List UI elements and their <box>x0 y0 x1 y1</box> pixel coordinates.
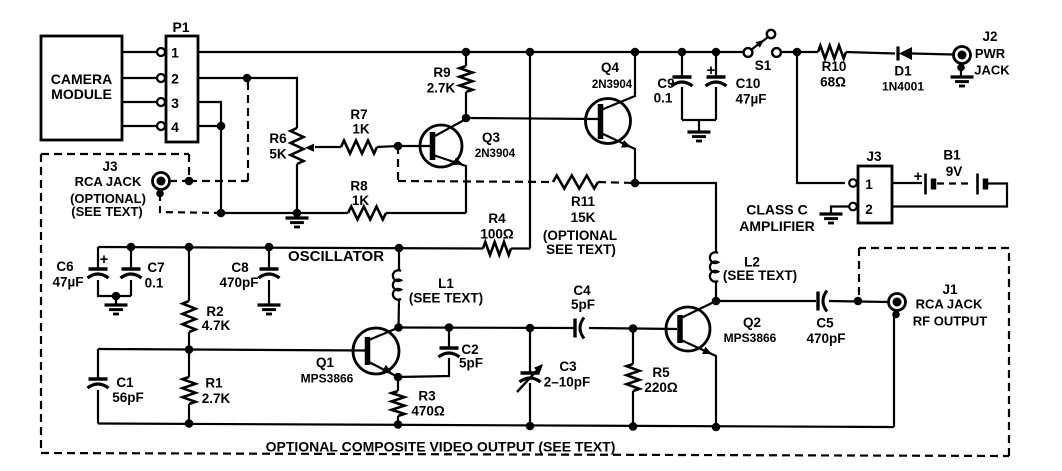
junction Q3 base node <box>394 142 403 151</box>
svg-text:RCA JACK: RCA JACK <box>916 297 983 312</box>
svg-text:JACK: JACK <box>974 63 1010 78</box>
junction Q3 collector / R9 <box>462 114 471 123</box>
svg-text:R5: R5 <box>652 365 670 380</box>
wire camera to P1 pin4 <box>122 125 157 127</box>
svg-text:C7: C7 <box>147 260 164 275</box>
junction C6-C7 ground node <box>112 292 121 301</box>
wire C6 top lead <box>97 247 99 269</box>
capacitor C6 <box>89 267 108 271</box>
wire Q4 emitter to L2 <box>635 183 716 253</box>
junction rail / C8 <box>265 243 274 252</box>
Q4 emitter arrow <box>621 140 631 148</box>
resistor R3 <box>392 391 405 416</box>
resistor R1 <box>183 377 196 404</box>
resistor R8 <box>348 207 386 220</box>
capacitor C2 <box>440 346 459 350</box>
svg-text:J3: J3 <box>102 159 118 174</box>
R6 wiper arrow <box>305 144 314 152</box>
wire C4 to Q2 base <box>589 328 677 329</box>
wire L2 bottom lead <box>715 282 717 301</box>
svg-text:OSCILLATOR: OSCILLATOR <box>288 248 384 265</box>
svg-text:RCA JACK: RCA JACK <box>75 174 142 189</box>
junction pin3/pin4 <box>217 122 226 131</box>
wire R1 bottom lead <box>188 404 190 424</box>
inductor L1 <box>393 270 401 299</box>
svg-text:100Ω: 100Ω <box>480 227 514 242</box>
wire C2 bottom to Q1 emitter <box>398 358 449 377</box>
wire C2 top lead <box>448 328 450 349</box>
wire V+ rail from P1 pin1 to S1 <box>198 51 744 53</box>
camera module box <box>41 36 122 140</box>
svg-text:1: 1 <box>171 45 179 61</box>
junction rail / C3 <box>526 324 535 333</box>
resistor R9 <box>460 66 473 92</box>
wire P1 pin2 to R6 top <box>198 78 297 128</box>
svg-text:S1: S1 <box>755 58 772 73</box>
wire Q4 collector to V+ rail <box>601 52 635 110</box>
wire C3 bottom lead <box>529 383 531 426</box>
junction R6 / ground rail <box>293 209 302 218</box>
svg-text:B1: B1 <box>943 148 961 163</box>
wire C10 bottom lead <box>715 87 717 120</box>
junction rail / L1 <box>395 244 404 253</box>
wire R10 to D1 <box>846 52 895 54</box>
junction bottom rail / R3 <box>394 420 403 429</box>
battery B1 <box>924 174 927 195</box>
svg-text:2: 2 <box>171 71 179 87</box>
svg-text:R7: R7 <box>350 107 367 122</box>
wire C9 top lead <box>681 52 683 77</box>
svg-text:PWR: PWR <box>975 46 1006 61</box>
wire Q1 collector <box>369 328 399 341</box>
wire P1 pin3 down <box>198 102 221 126</box>
wire C10 top lead <box>715 52 717 77</box>
junction bottom rail / R5 <box>629 422 638 431</box>
dashed boundary J1 top <box>859 247 1009 249</box>
svg-text:(SEE TEXT): (SEE TEXT) <box>71 204 143 219</box>
power jack J2 <box>954 47 971 64</box>
svg-text:15K: 15K <box>571 210 596 225</box>
svg-text:MPS3866: MPS3866 <box>301 372 354 386</box>
dashed boundary right of J3 box <box>188 154 190 178</box>
dashed boundary J1 left <box>858 248 860 299</box>
wire bottom ground rail <box>98 424 894 428</box>
svg-text:MODULE: MODULE <box>51 86 112 102</box>
C3 variable arrow <box>517 366 541 392</box>
wire C9-C10 join <box>682 119 716 121</box>
svg-text:P1: P1 <box>172 19 189 35</box>
svg-text:4: 4 <box>171 119 179 135</box>
wire J2 to ground <box>960 68 962 76</box>
wire oscillator rail <box>98 247 483 249</box>
ground at J3 pin2 <box>820 212 843 215</box>
wire battery cells dashed <box>937 182 972 184</box>
resistor R11 <box>553 176 598 189</box>
wire C8 top lead <box>268 247 270 269</box>
dashed wire J3 shield to ground rail <box>160 194 221 213</box>
wire R9 bottom lead <box>465 92 467 118</box>
inductor L2 <box>710 252 718 281</box>
wire J3 pin1 to battery <box>892 182 922 184</box>
svg-text:0.1: 0.1 <box>654 91 673 106</box>
wire P1 pin4 to ground rail <box>198 126 221 213</box>
svg-text:SEE TEXT): SEE TEXT) <box>546 242 616 257</box>
junction rail / C2 <box>445 323 454 332</box>
connector P1 box <box>166 36 198 142</box>
transistor Q1 <box>353 328 399 374</box>
ground at J2 <box>951 75 974 78</box>
wire R9 top lead <box>465 52 467 66</box>
svg-text:MPS3866: MPS3866 <box>724 331 777 345</box>
svg-text:Q4: Q4 <box>601 60 620 75</box>
wire S1 to R10 <box>781 51 818 53</box>
svg-text:C4: C4 <box>573 283 591 298</box>
junction V+ rail / Q4 collector <box>631 48 640 57</box>
junction pin2 video tap <box>243 74 252 83</box>
wire R1 top lead <box>188 350 190 378</box>
wire Q3 emitter <box>433 155 466 213</box>
svg-text:1K: 1K <box>352 122 370 137</box>
dashed boundary left edge <box>40 154 42 453</box>
svg-text:47µF: 47µF <box>735 92 766 107</box>
svg-text:(SEE TEXT): (SEE TEXT) <box>723 268 797 283</box>
svg-text:C6: C6 <box>56 259 74 274</box>
svg-text:0.1: 0.1 <box>145 276 164 291</box>
wire R6 bottom lead <box>296 164 298 213</box>
wire R4 to V+ drop <box>511 247 530 249</box>
wire C7 bottom lead <box>130 280 132 296</box>
battery B1 second cell <box>976 174 979 195</box>
svg-text:C1: C1 <box>116 375 134 390</box>
ground under C8 <box>258 303 281 306</box>
svg-text:220Ω: 220Ω <box>644 380 678 395</box>
transistor Q2 <box>666 307 710 351</box>
C3 arrow head <box>534 364 543 373</box>
svg-text:2N3904: 2N3904 <box>592 79 633 91</box>
svg-text:C3: C3 <box>559 359 577 374</box>
svg-text:1N4001: 1N4001 <box>882 80 924 94</box>
capacitor C8 <box>260 267 279 271</box>
wire D1 to J2 <box>912 54 953 55</box>
diode D1 <box>899 47 912 60</box>
potentiometer R6 <box>291 128 304 164</box>
junction Q4 emitter / R11 <box>631 179 640 188</box>
wire to ground stem <box>698 120 700 131</box>
junction P1 pins3-4 / ground rail <box>217 209 226 218</box>
svg-text:R6: R6 <box>269 131 287 146</box>
svg-text:470pF: 470pF <box>806 331 845 346</box>
svg-text:1: 1 <box>865 177 873 192</box>
svg-text:(OPTIONAL: (OPTIONAL <box>543 228 617 243</box>
wire C9 bottom lead <box>681 87 683 120</box>
svg-text:68Ω: 68Ω <box>820 75 846 90</box>
wire J3 pin2 to ground <box>831 207 849 214</box>
capacitor C1 <box>89 377 108 381</box>
wire C1 bottom lead <box>97 390 99 424</box>
wire R5 top lead <box>632 329 634 365</box>
wire R2 top lead <box>188 247 190 301</box>
capacitor C10 <box>707 75 726 79</box>
dashed boundary top left <box>41 153 189 155</box>
svg-text:J3: J3 <box>866 149 882 164</box>
wire J1 shield to bottom rail <box>893 316 895 427</box>
S1 lever arrow <box>756 40 765 48</box>
wire R5 bottom lead <box>632 391 634 427</box>
dashed boundary right edge <box>1008 248 1010 456</box>
dashed wire R11 to Q4 emitter <box>598 182 635 183</box>
wire R3 top lead <box>397 377 399 391</box>
svg-text:C5: C5 <box>816 316 834 331</box>
svg-text:2: 2 <box>865 202 873 217</box>
wire C7 top lead <box>130 247 132 269</box>
transistor Q3 <box>420 125 462 167</box>
svg-text:R3: R3 <box>418 389 436 404</box>
svg-text:9V: 9V <box>946 164 963 179</box>
wire Q1 base rail <box>98 349 366 351</box>
junction bottom rail / C3 <box>526 422 535 431</box>
resistor R2 <box>183 301 196 332</box>
capacitor C5 <box>816 292 819 311</box>
junction V+ rail / C10 <box>712 48 721 57</box>
svg-text:+: + <box>707 62 716 79</box>
J3 pin circles <box>849 179 857 187</box>
junction bottom rail / R1 <box>185 419 194 428</box>
wire Q1 emitter <box>369 362 398 377</box>
dashed boundary bottom edge <box>41 453 1009 456</box>
wire Q4 emitter down <box>601 133 635 183</box>
svg-text:R1: R1 <box>205 376 223 391</box>
svg-text:5K: 5K <box>269 147 287 162</box>
resistor R10 <box>818 46 846 59</box>
svg-text:(SEE TEXT): (SEE TEXT) <box>409 291 483 306</box>
svg-text:2N3904: 2N3904 <box>475 148 516 160</box>
resistor R7 <box>341 141 377 154</box>
wire battery return to J3 pin2 <box>892 184 1007 207</box>
Q3 emitter arrow <box>453 158 463 166</box>
wire Q1 collector to C4 <box>399 326 575 329</box>
wire C8 bottom lead <box>268 280 270 304</box>
svg-text:AMPLIFIER: AMPLIFIER <box>739 218 814 234</box>
connector J3 box <box>858 166 892 223</box>
wire Q2 collector to C5 <box>716 300 816 302</box>
junction V+ rail / R4 drop <box>526 48 535 57</box>
wire R3 bottom lead <box>397 416 399 425</box>
Q1 emitter arrow <box>382 365 393 374</box>
svg-text:3: 3 <box>171 95 179 111</box>
svg-text:R4: R4 <box>488 211 506 226</box>
dashed wire Q3 base down <box>397 146 399 181</box>
junction Q1 emitter node <box>394 373 403 382</box>
wire L1 top lead <box>398 248 400 271</box>
svg-text:56pF: 56pF <box>112 390 144 405</box>
wire Q3 base lead <box>398 145 430 147</box>
wire camera to P1 pin2 <box>122 77 157 79</box>
wire Q3 collector to Q4 base <box>466 118 598 119</box>
RCA jack J1 <box>889 294 906 311</box>
ground under C6 C7 <box>105 303 128 306</box>
svg-text:Q2: Q2 <box>743 315 761 330</box>
wire L1 bottom lead <box>397 300 400 327</box>
svg-text:5pF: 5pF <box>459 356 483 371</box>
capacitor C9 <box>673 75 692 79</box>
svg-text:R2: R2 <box>206 304 223 319</box>
junction V+ rail / R9 <box>462 48 471 57</box>
svg-text:R11: R11 <box>571 194 596 209</box>
svg-text:J1: J1 <box>942 282 958 297</box>
capacitor C3 <box>521 371 540 375</box>
wire C1 top lead <box>97 349 99 379</box>
resistor R4 <box>483 242 511 255</box>
svg-text:+: + <box>100 251 109 268</box>
ground under C9 C10 <box>688 130 711 133</box>
svg-text:+: + <box>914 168 923 185</box>
wire to ground C6C7 <box>115 296 117 304</box>
dashed wire to R11 <box>398 181 553 182</box>
junction Q2 collector / L2 <box>712 297 721 306</box>
svg-text:D1: D1 <box>894 64 912 79</box>
svg-text:4.7K: 4.7K <box>202 318 231 333</box>
ground under R6 <box>286 216 309 219</box>
junction bottom rail / Q2 emitter <box>712 423 721 432</box>
wire C3 top lead <box>529 328 531 372</box>
junction rail / R2 <box>185 243 194 252</box>
transistor Q4 <box>586 99 631 144</box>
capacitor C7 <box>122 267 141 271</box>
svg-text:C8: C8 <box>231 260 249 275</box>
svg-text:Q3: Q3 <box>482 130 501 145</box>
switch S1 <box>744 48 753 57</box>
svg-text:CLASS C: CLASS C <box>746 202 807 218</box>
svg-text:C9: C9 <box>657 76 674 91</box>
wire battery feed to J3 pin1 <box>797 52 845 183</box>
junction J3 optional tap <box>185 177 194 186</box>
junction rail / C7 <box>127 243 136 252</box>
junction V+ rail / C9 <box>678 48 687 57</box>
svg-text:470Ω: 470Ω <box>411 404 445 419</box>
svg-text:47µF: 47µF <box>52 275 83 290</box>
dashed wire J3 center to tap <box>171 180 189 182</box>
wire ground rail left <box>221 212 348 214</box>
svg-text:5pF: 5pF <box>571 297 595 312</box>
svg-text:R9: R9 <box>433 65 450 80</box>
svg-text:OPTIONAL COMPOSITE VIDEO OUTPU: OPTIONAL COMPOSITE VIDEO OUTPUT (SEE TEX… <box>266 439 616 455</box>
svg-text:470pF: 470pF <box>219 275 258 290</box>
wire C5 to J1 <box>829 301 888 302</box>
svg-text:R10: R10 <box>822 59 847 74</box>
svg-text:2.7K: 2.7K <box>202 391 231 406</box>
wire ground rail right <box>386 212 466 214</box>
wire R7 to R6 wiper <box>315 146 341 148</box>
wire R2 bottom lead <box>188 332 190 349</box>
junction V+ / battery feed <box>793 48 802 57</box>
capacitor C4 <box>573 319 576 338</box>
svg-text:J2: J2 <box>982 29 997 44</box>
wire Q2 emitter <box>681 340 716 427</box>
svg-text:1K: 1K <box>352 193 370 208</box>
svg-text:L1: L1 <box>438 276 454 291</box>
resistor R5 <box>627 364 640 391</box>
wire R7 to Q3 base <box>377 146 398 147</box>
dashed wire tap to pin2 branch <box>189 180 248 182</box>
wire camera to P1 pin3 <box>122 101 157 103</box>
dashed wire up to pin2 video <box>247 78 249 181</box>
junction Q1 collector / L1 <box>394 323 403 332</box>
junction base rail / R1 <box>185 345 194 354</box>
svg-text:C10: C10 <box>736 76 761 91</box>
P1 pin circles <box>157 48 165 56</box>
svg-text:R8: R8 <box>350 179 368 194</box>
wire camera to P1 pin1 <box>122 51 157 53</box>
svg-text:Q1: Q1 <box>316 355 335 370</box>
wire C6 bottom to C7 <box>98 280 131 296</box>
Q2 emitter arrow <box>702 347 712 354</box>
wire Q3 collector <box>433 119 466 137</box>
RCA jack J3 optional <box>153 173 170 190</box>
svg-text:CAMERA: CAMERA <box>51 71 112 87</box>
junction rail / R5 <box>629 324 638 333</box>
junction C5 / J1 dashed node <box>854 297 863 306</box>
svg-text:2.7K: 2.7K <box>427 81 456 96</box>
wire Q2 collector <box>681 301 716 318</box>
svg-text:RF OUTPUT: RF OUTPUT <box>913 314 987 329</box>
svg-text:2–10pF: 2–10pF <box>544 375 591 390</box>
wire V+ drop to R4 <box>529 52 531 249</box>
